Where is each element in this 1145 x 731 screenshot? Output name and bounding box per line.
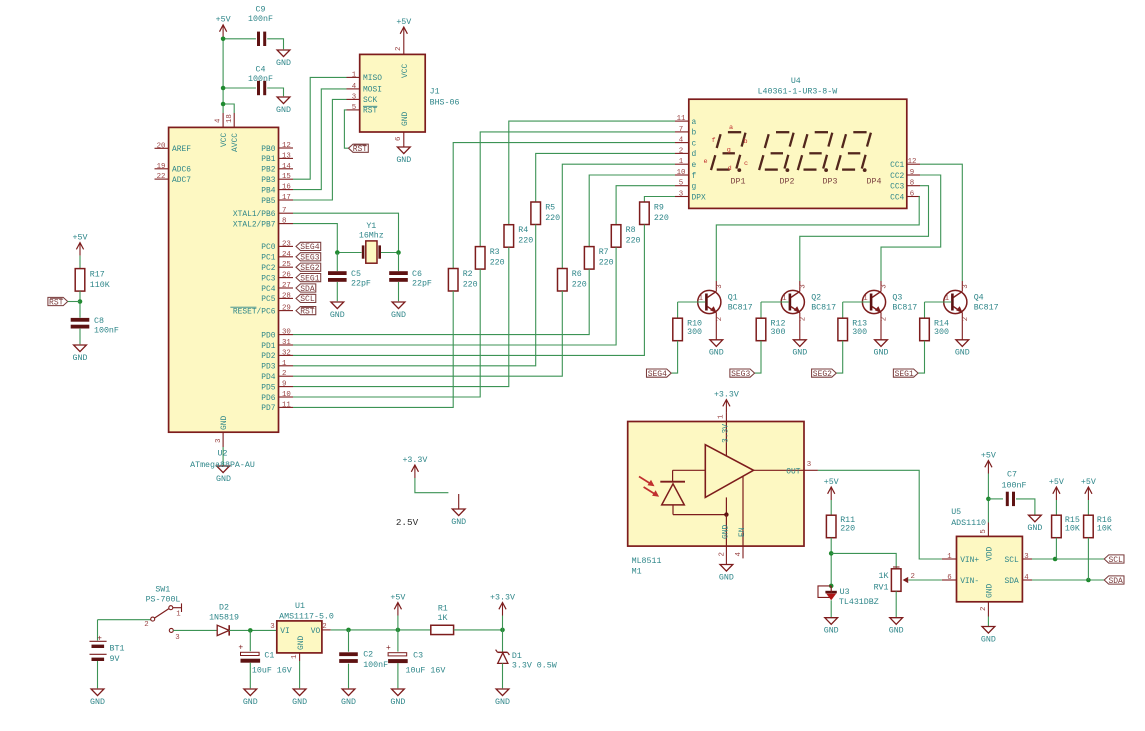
- svg-text:+5V: +5V: [824, 478, 839, 487]
- svg-text:RST: RST: [49, 298, 64, 307]
- svg-text:D2: D2: [219, 604, 229, 613]
- svg-text:2: 2: [322, 623, 326, 631]
- svg-text:f: f: [711, 137, 715, 145]
- svg-text:BT1: BT1: [110, 644, 125, 653]
- svg-text:1: 1: [718, 414, 726, 419]
- svg-text:ADC6: ADC6: [172, 166, 191, 175]
- svg-text:27: 27: [282, 282, 291, 290]
- svg-text:220: 220: [518, 237, 533, 246]
- svg-text:22pF: 22pF: [351, 280, 371, 289]
- svg-text:2: 2: [679, 147, 683, 155]
- svg-text:PS-700L: PS-700L: [146, 595, 181, 604]
- svg-text:XTAL2/PB7: XTAL2/PB7: [233, 220, 276, 229]
- svg-text:3: 3: [716, 284, 724, 288]
- svg-text:+5V: +5V: [73, 233, 88, 242]
- svg-text:RST: RST: [353, 145, 368, 154]
- svg-text:3: 3: [1024, 553, 1028, 561]
- svg-text:220: 220: [463, 281, 478, 290]
- svg-text:AREF: AREF: [172, 145, 191, 154]
- svg-text:1: 1: [282, 360, 287, 368]
- svg-text:SEG2: SEG2: [300, 264, 319, 273]
- svg-text:ADC7: ADC7: [172, 176, 191, 185]
- svg-text:R3: R3: [490, 248, 500, 257]
- svg-text:PD5: PD5: [261, 383, 275, 392]
- svg-text:Q4: Q4: [974, 293, 984, 302]
- svg-text:f: f: [692, 172, 697, 181]
- svg-text:16Mhz: 16Mhz: [359, 230, 384, 240]
- svg-text:PB3: PB3: [261, 176, 275, 185]
- svg-text:9: 9: [910, 169, 914, 177]
- svg-text:30: 30: [282, 329, 291, 337]
- svg-text:PD0: PD0: [261, 331, 275, 340]
- svg-text:10: 10: [677, 169, 686, 177]
- svg-text:GND: GND: [341, 698, 356, 707]
- svg-text:1: 1: [945, 295, 950, 303]
- svg-text:220: 220: [490, 259, 505, 268]
- svg-text:3.3V: 3.3V: [722, 424, 731, 443]
- svg-text:100nF: 100nF: [363, 661, 388, 670]
- svg-text:Q3: Q3: [892, 293, 902, 302]
- svg-text:SEG1: SEG1: [895, 370, 914, 379]
- svg-text:R2: R2: [463, 270, 473, 279]
- svg-text:100nF: 100nF: [248, 75, 273, 84]
- svg-text:SEG4: SEG4: [648, 370, 667, 379]
- svg-text:GND: GND: [276, 59, 291, 68]
- svg-text:Y1: Y1: [366, 222, 376, 231]
- svg-text:2.5V: 2.5V: [396, 517, 419, 528]
- svg-text:GND: GND: [292, 698, 307, 707]
- svg-text:R1: R1: [438, 604, 448, 613]
- svg-text:SEG1: SEG1: [300, 274, 319, 283]
- svg-text:3: 3: [807, 461, 811, 469]
- svg-text:GND: GND: [391, 311, 406, 320]
- svg-text:GND: GND: [722, 525, 731, 539]
- svg-text:3: 3: [352, 93, 356, 101]
- svg-text:100nF: 100nF: [248, 15, 273, 24]
- svg-text:SEG3: SEG3: [731, 370, 750, 379]
- svg-text:SEG3: SEG3: [300, 254, 319, 263]
- svg-text:XTAL1/PB6: XTAL1/PB6: [233, 210, 276, 219]
- svg-text:PC3: PC3: [261, 274, 275, 283]
- svg-text:GND: GND: [216, 475, 231, 484]
- svg-text:22pF: 22pF: [412, 280, 432, 289]
- svg-text:3: 3: [679, 191, 683, 199]
- svg-text:3: 3: [799, 284, 807, 288]
- svg-text:11: 11: [677, 115, 686, 123]
- svg-text:100nF: 100nF: [94, 327, 119, 336]
- svg-text:VCC: VCC: [401, 64, 410, 78]
- svg-text:+3.3V: +3.3V: [490, 593, 515, 602]
- svg-text:BC817: BC817: [892, 304, 917, 313]
- svg-text:GND: GND: [90, 698, 105, 707]
- svg-text:ATmega88PA-AU: ATmega88PA-AU: [190, 461, 255, 470]
- svg-text:PB4: PB4: [261, 186, 275, 195]
- svg-text:300: 300: [687, 328, 702, 337]
- svg-text:R5: R5: [545, 204, 555, 213]
- svg-text:L40361-1-UR3-8-W: L40361-1-UR3-8-W: [758, 88, 838, 97]
- svg-text:15: 15: [282, 173, 291, 181]
- svg-text:7: 7: [282, 207, 286, 215]
- svg-text:R8: R8: [626, 226, 636, 235]
- svg-text:4: 4: [352, 83, 357, 91]
- svg-text:U1: U1: [295, 602, 305, 611]
- svg-text:ADS1110: ADS1110: [951, 519, 986, 528]
- svg-text:GND: GND: [1027, 524, 1042, 533]
- svg-text:e: e: [703, 158, 707, 166]
- svg-text:GND: GND: [824, 627, 839, 636]
- svg-text:18: 18: [226, 114, 234, 123]
- svg-text:PD4: PD4: [261, 373, 275, 382]
- svg-text:220: 220: [599, 259, 614, 268]
- svg-text:BC817: BC817: [728, 304, 753, 313]
- svg-text:D1: D1: [512, 652, 522, 661]
- svg-text:R9: R9: [654, 204, 664, 213]
- svg-text:Q1: Q1: [728, 293, 738, 302]
- svg-text:SW1: SW1: [155, 586, 170, 595]
- svg-text:DP3: DP3: [823, 178, 838, 187]
- svg-text:RST: RST: [300, 307, 315, 316]
- svg-text:PC4: PC4: [261, 285, 275, 294]
- svg-text:2: 2: [719, 552, 727, 556]
- svg-text:2: 2: [980, 607, 988, 611]
- svg-text:PC1: PC1: [261, 254, 275, 263]
- svg-text:GND: GND: [874, 349, 889, 358]
- svg-text:10uF 16V: 10uF 16V: [252, 667, 292, 676]
- svg-text:AVCC: AVCC: [231, 133, 240, 152]
- svg-text:+3.3V: +3.3V: [402, 456, 427, 465]
- svg-text:6: 6: [395, 137, 403, 141]
- svg-text:a: a: [692, 118, 697, 127]
- svg-text:3: 3: [215, 439, 223, 443]
- svg-text:R7: R7: [599, 248, 609, 257]
- svg-text:DP4: DP4: [867, 178, 882, 187]
- svg-text:1: 1: [291, 654, 299, 659]
- svg-text:MISO: MISO: [363, 74, 382, 83]
- svg-text:SCK: SCK: [363, 96, 377, 105]
- svg-text:C6: C6: [412, 270, 422, 279]
- svg-text:GND: GND: [495, 698, 510, 707]
- svg-text:d: d: [728, 165, 732, 173]
- svg-text:EN: EN: [738, 527, 747, 537]
- svg-text:100nF: 100nF: [1002, 481, 1027, 490]
- svg-text:10K: 10K: [1097, 525, 1112, 534]
- svg-text:GND: GND: [981, 635, 996, 644]
- svg-text:c: c: [692, 139, 697, 148]
- svg-text:VIN-: VIN-: [960, 577, 979, 586]
- svg-text:PD3: PD3: [261, 363, 275, 372]
- svg-text:+5V: +5V: [216, 16, 231, 25]
- svg-text:12: 12: [908, 158, 917, 166]
- svg-text:SCL: SCL: [1004, 556, 1018, 565]
- svg-text:SDA: SDA: [1004, 577, 1018, 586]
- svg-text:+3.3V: +3.3V: [714, 390, 739, 399]
- svg-text:3: 3: [962, 284, 970, 288]
- svg-text:GND: GND: [792, 349, 807, 358]
- svg-text:23: 23: [282, 240, 291, 248]
- svg-text:c: c: [744, 160, 748, 168]
- svg-text:+5V: +5V: [396, 18, 411, 27]
- svg-text:1: 1: [947, 553, 952, 561]
- svg-text:PD1: PD1: [261, 342, 275, 351]
- svg-text:25: 25: [282, 261, 291, 269]
- svg-text:220: 220: [545, 214, 560, 223]
- svg-text:6: 6: [910, 191, 914, 199]
- svg-text:ML8511: ML8511: [632, 557, 662, 566]
- svg-text:BC817: BC817: [811, 304, 836, 313]
- svg-text:13: 13: [282, 152, 291, 160]
- svg-text:M1: M1: [632, 568, 642, 577]
- svg-text:20: 20: [157, 142, 166, 150]
- svg-text:16: 16: [282, 184, 291, 192]
- svg-text:SCL: SCL: [300, 295, 315, 304]
- svg-text:RST: RST: [363, 107, 377, 116]
- svg-text:10uF 16V: 10uF 16V: [406, 667, 446, 676]
- svg-text:BC817: BC817: [974, 304, 999, 313]
- svg-text:4: 4: [679, 137, 684, 145]
- svg-text:PD2: PD2: [261, 352, 275, 361]
- svg-text:GND: GND: [986, 584, 995, 598]
- svg-text:C7: C7: [1007, 470, 1017, 479]
- svg-text:g: g: [692, 183, 697, 192]
- svg-text:SDA: SDA: [1108, 577, 1123, 586]
- svg-text:J1: J1: [430, 88, 440, 97]
- svg-text:GND: GND: [955, 349, 970, 358]
- svg-text:22: 22: [157, 173, 166, 181]
- svg-text:1: 1: [863, 295, 868, 303]
- svg-text:31: 31: [282, 339, 291, 347]
- svg-text:11: 11: [282, 401, 291, 409]
- svg-text:Q2: Q2: [811, 293, 821, 302]
- svg-text:9V: 9V: [110, 655, 120, 664]
- svg-text:+5V: +5V: [1049, 478, 1064, 487]
- svg-text:3: 3: [881, 284, 889, 288]
- svg-text:DPX: DPX: [692, 193, 706, 202]
- svg-text:RV1: RV1: [874, 584, 889, 593]
- svg-text:2: 2: [911, 573, 915, 581]
- svg-text:1: 1: [679, 158, 684, 166]
- svg-text:DP1: DP1: [731, 178, 746, 187]
- svg-text:PC2: PC2: [261, 264, 275, 273]
- svg-text:PB5: PB5: [261, 197, 275, 206]
- svg-text:GND: GND: [390, 698, 405, 707]
- svg-text:d: d: [692, 150, 697, 159]
- svg-text:C5: C5: [351, 270, 361, 279]
- svg-text:5: 5: [352, 104, 356, 112]
- svg-text:VDD: VDD: [986, 547, 995, 561]
- svg-text:1: 1: [352, 71, 357, 79]
- svg-text:GND: GND: [401, 112, 410, 126]
- svg-text:C3: C3: [413, 652, 423, 661]
- svg-text:PB0: PB0: [261, 145, 275, 154]
- svg-text:4: 4: [215, 118, 223, 123]
- svg-text:+: +: [238, 643, 243, 652]
- svg-text:OUT: OUT: [786, 467, 800, 476]
- svg-text:7: 7: [679, 126, 683, 134]
- svg-text:1N5819: 1N5819: [209, 614, 239, 623]
- svg-text:2: 2: [282, 370, 286, 378]
- svg-text:14: 14: [282, 163, 291, 171]
- svg-text:R16: R16: [1097, 516, 1112, 525]
- svg-text:CC1: CC1: [890, 161, 904, 170]
- svg-text:GND: GND: [889, 627, 904, 636]
- svg-text:g: g: [727, 147, 731, 155]
- svg-text:U3: U3: [840, 588, 850, 597]
- svg-text:VO: VO: [311, 627, 321, 636]
- svg-text:3: 3: [270, 623, 274, 631]
- svg-text:U5: U5: [951, 508, 961, 517]
- svg-text:C9: C9: [256, 6, 266, 15]
- svg-text:VIN+: VIN+: [960, 556, 979, 565]
- svg-text:GND: GND: [451, 518, 466, 527]
- svg-text:300: 300: [852, 328, 867, 337]
- svg-text:R15: R15: [1065, 516, 1080, 525]
- svg-text:C8: C8: [94, 317, 104, 326]
- svg-text:GND: GND: [276, 106, 291, 115]
- svg-text:8: 8: [282, 218, 286, 226]
- svg-text:300: 300: [771, 328, 786, 337]
- svg-text:RESET/PC6: RESET/PC6: [233, 307, 276, 316]
- svg-text:4: 4: [1024, 574, 1029, 582]
- svg-text:19: 19: [157, 163, 166, 171]
- svg-text:MOSI: MOSI: [363, 86, 382, 95]
- svg-text:CC2: CC2: [890, 172, 904, 181]
- svg-text:AMS1117-5.0: AMS1117-5.0: [279, 613, 334, 622]
- svg-text:GND: GND: [220, 416, 229, 430]
- svg-text:GND: GND: [719, 573, 734, 582]
- svg-text:PC5: PC5: [261, 295, 275, 304]
- svg-text:2: 2: [144, 621, 148, 629]
- svg-text:12: 12: [282, 142, 291, 150]
- svg-text:PB1: PB1: [261, 155, 275, 164]
- svg-text:PD6: PD6: [261, 394, 275, 403]
- svg-text:300: 300: [934, 328, 949, 337]
- svg-text:U2: U2: [218, 449, 228, 458]
- svg-text:1K: 1K: [879, 572, 889, 581]
- svg-text:GND: GND: [297, 636, 306, 650]
- svg-text:CC4: CC4: [890, 193, 904, 202]
- svg-text:6: 6: [947, 574, 951, 582]
- svg-text:+5V: +5V: [390, 593, 405, 602]
- svg-text:2: 2: [962, 317, 970, 321]
- svg-text:GND: GND: [243, 698, 258, 707]
- svg-text:5: 5: [980, 529, 988, 533]
- svg-text:1: 1: [782, 295, 787, 303]
- svg-text:17: 17: [282, 194, 291, 202]
- svg-text:TL431DBZ: TL431DBZ: [839, 598, 879, 607]
- svg-text:C2: C2: [363, 651, 373, 660]
- svg-text:VCC: VCC: [220, 133, 229, 147]
- svg-text:5: 5: [679, 180, 683, 188]
- svg-text:GND: GND: [396, 156, 411, 165]
- svg-text:1: 1: [176, 611, 181, 619]
- svg-text:220: 220: [626, 237, 641, 246]
- svg-text:26: 26: [282, 272, 291, 280]
- svg-text:PB2: PB2: [261, 166, 275, 175]
- svg-text:SEG2: SEG2: [813, 370, 832, 379]
- svg-text:GND: GND: [709, 349, 724, 358]
- svg-text:1: 1: [699, 295, 704, 303]
- svg-text:32: 32: [282, 349, 291, 357]
- svg-text:SEG4: SEG4: [300, 243, 319, 252]
- svg-text:1K: 1K: [438, 614, 448, 623]
- svg-text:2: 2: [799, 317, 807, 321]
- svg-text:+5V: +5V: [1081, 478, 1096, 487]
- svg-text:+: +: [97, 634, 102, 643]
- svg-text:4: 4: [735, 552, 743, 557]
- svg-text:3: 3: [175, 634, 179, 642]
- svg-text:220: 220: [572, 281, 587, 290]
- svg-text:PC0: PC0: [261, 243, 275, 252]
- svg-text:GND: GND: [330, 311, 345, 320]
- svg-text:SDA: SDA: [300, 285, 315, 294]
- svg-text:C4: C4: [256, 66, 266, 75]
- svg-text:R6: R6: [572, 270, 582, 279]
- svg-text:GND: GND: [73, 354, 88, 363]
- svg-text:VI: VI: [280, 627, 289, 636]
- svg-text:e: e: [692, 161, 697, 170]
- svg-text:10: 10: [282, 391, 291, 399]
- svg-text:U4: U4: [791, 77, 801, 86]
- svg-text:220: 220: [654, 214, 669, 223]
- svg-text:+5V: +5V: [981, 451, 996, 460]
- svg-text:9: 9: [282, 381, 286, 389]
- svg-text:CC3: CC3: [890, 183, 904, 192]
- svg-text:220: 220: [840, 525, 855, 534]
- svg-text:SCL: SCL: [1108, 556, 1123, 565]
- svg-text:a: a: [729, 124, 733, 132]
- svg-text:b: b: [692, 129, 697, 138]
- svg-text:24: 24: [282, 251, 291, 259]
- svg-text:DP2: DP2: [780, 178, 795, 187]
- svg-text:PD7: PD7: [261, 404, 275, 413]
- svg-text:110K: 110K: [90, 281, 110, 290]
- svg-text:8: 8: [910, 180, 914, 188]
- svg-text:3.3V 0.5W: 3.3V 0.5W: [512, 662, 557, 671]
- svg-text:2: 2: [881, 317, 889, 321]
- svg-text:10K: 10K: [1065, 525, 1080, 534]
- svg-text:2: 2: [395, 47, 403, 51]
- svg-text:R11: R11: [840, 516, 855, 525]
- svg-text:R4: R4: [518, 226, 528, 235]
- svg-text:BHS-06: BHS-06: [430, 99, 460, 108]
- svg-text:+: +: [386, 644, 391, 653]
- svg-text:29: 29: [282, 305, 291, 313]
- svg-text:2: 2: [716, 317, 724, 321]
- svg-text:C1: C1: [264, 652, 274, 661]
- svg-text:28: 28: [282, 292, 291, 300]
- svg-text:b: b: [743, 138, 747, 146]
- svg-text:R17: R17: [90, 270, 105, 279]
